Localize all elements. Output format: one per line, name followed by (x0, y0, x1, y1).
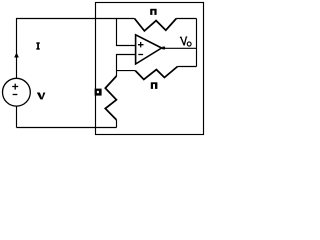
wire: R3 bottom lead (116, 120, 118, 128)
voltage source V1 (3, 78, 31, 106)
label I (36, 42, 40, 49)
current arrow I (pointing up) (15, 53, 19, 57)
box enclosure (96, 3, 204, 135)
junction dot at op-amp output (162, 47, 165, 50)
label R1 (150, 9, 156, 15)
wire: output from op-amp apex (162, 47, 197, 49)
plus sign of source (12, 84, 18, 90)
wire: top right lead to corner (176, 18, 196, 20)
resistor R3 (vertical, left) (105, 76, 116, 120)
label V (37, 93, 43, 100)
wire: lower feedback right segment (178, 66, 197, 68)
minus sign of source (13, 94, 18, 96)
wire: stub from - node to R2 lead (117, 70, 136, 72)
resistor R2 (lower feedback) (135, 67, 177, 80)
wire: top horizontal from left loop to resistor R1 lead (17, 18, 135, 20)
label R3 (95, 89, 102, 96)
node: + input riser from top wire (117, 18, 136, 46)
resistor R1 (top feedback) (135, 19, 177, 31)
label VO (180, 37, 187, 46)
op-amp U1 (136, 35, 162, 64)
op-amp - input symbol (138, 54, 143, 56)
wire: left vertical upper (source top to top wire) (16, 18, 18, 78)
label R2 (151, 82, 158, 89)
wire: left vertical lower (source bottom to bottom wire) (16, 106, 18, 127)
wire: right vertical (output net) (196, 19, 198, 67)
op-amp + input symbol (138, 42, 144, 47)
wire: bottom horizontal to resistor R3 bottom (17, 127, 117, 129)
node: - input wire down to R3 (117, 55, 136, 77)
